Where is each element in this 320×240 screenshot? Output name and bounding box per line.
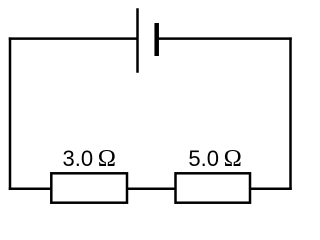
- wire bottom-right (R2 to right side): [249, 188, 292, 191]
- wire left vertical: [9, 37, 12, 190]
- battery long plate (positive terminal): [136, 8, 139, 72]
- resistor R2 box: [176, 173, 251, 202]
- wire right vertical: [289, 37, 292, 190]
- wire bottom-left (to R1): [9, 188, 53, 191]
- wire between R1 and R2: [126, 188, 177, 191]
- wire top-left (battery + to left side): [9, 37, 138, 40]
- svg-text:3.0 Ω: 3.0 Ω: [63, 145, 116, 172]
- resistor R1 box: [51, 173, 127, 202]
- wire top-right (battery - to right side): [157, 37, 292, 40]
- svg-text:5.0 Ω: 5.0 Ω: [188, 145, 241, 172]
- battery short thick plate (negative terminal): [154, 23, 159, 56]
